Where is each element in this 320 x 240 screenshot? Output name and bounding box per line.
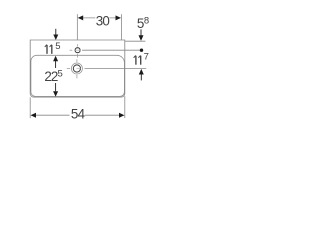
dim 30: left extension line (tap centerline up) (76, 14, 78, 40)
svg-text:8: 8 (144, 15, 149, 26)
centerline dash across drain (77, 68, 81, 70)
dim 54: left arrowhead (31, 113, 37, 118)
dot marker (140, 49, 143, 52)
tap hole centerline vertical dashes (77, 44, 79, 57)
drain inner circle (73, 65, 80, 72)
tap hole (75, 48, 80, 53)
drain centerline dashes (67, 59, 77, 78)
tap centerline extension to right with dot (82, 49, 140, 51)
dim 11.7: label (134, 55, 141, 64)
dim 30: right extension line (121, 14, 123, 40)
dim 54: left extension line (29, 97, 31, 118)
dim 5.8: down arrow (140, 29, 142, 35)
svg-text:5: 5 (55, 41, 60, 52)
svg-text:30: 30 (96, 14, 110, 29)
drain centerline extension to right (85, 68, 147, 70)
dim 54: dimension line (35, 114, 119, 116)
svg-text:22: 22 (44, 69, 57, 84)
dim 11.5: down arrow at rim top (55, 29, 57, 36)
dim 22.5: down arrow at bowl bottom (55, 83, 57, 91)
drain outer circle (71, 63, 82, 74)
svg-text:54: 54 (71, 106, 86, 121)
dim 54: right extension line (124, 96, 126, 118)
svg-text:7: 7 (144, 52, 149, 63)
dim 54: right arrowhead (119, 113, 125, 118)
dim 5.8: extension line from rim top edge (125, 40, 145, 42)
dim 30: right arrowhead (116, 15, 122, 20)
washbasin inner bowl (31, 55, 125, 96)
dim 22.5: up arrow at bowl top (53, 56, 58, 62)
dim 11.7: up arrow (139, 69, 144, 75)
dim 11.5: label (45, 45, 52, 54)
tap hole centerline horizontal dash left (70, 49, 73, 51)
washbasin rim outline (30, 40, 125, 97)
dim 30: left arrowhead (78, 15, 84, 20)
centerline dash across tap hole (75, 49, 81, 51)
dim 30: dimension line (83, 17, 117, 19)
svg-text:5: 5 (58, 68, 63, 79)
